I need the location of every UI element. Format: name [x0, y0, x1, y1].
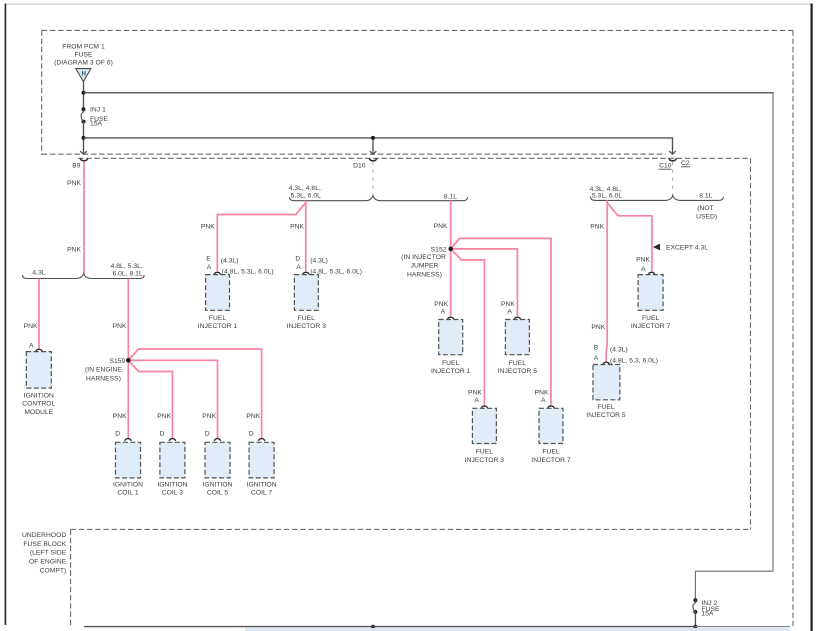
- svg-text:PNK: PNK: [501, 301, 515, 308]
- svg-text:(4.8L, 5.3, 6.0L): (4.8L, 5.3, 6.0L): [610, 358, 658, 365]
- svg-text:FUEL: FUEL: [509, 360, 527, 367]
- svg-text:S152: S152: [431, 247, 447, 254]
- svg-text:JUMPER: JUMPER: [411, 263, 439, 270]
- svg-text:D: D: [115, 430, 120, 437]
- svg-text:PNK: PNK: [113, 323, 127, 330]
- svg-text:A: A: [541, 397, 546, 404]
- svg-text:FROM PCM 1: FROM PCM 1: [62, 43, 105, 50]
- svg-text:4.3L: 4.3L: [32, 270, 45, 277]
- svg-text:INJECTOR 7: INJECTOR 7: [531, 457, 571, 464]
- svg-text:PNK: PNK: [113, 413, 127, 420]
- svg-text:D: D: [160, 430, 165, 437]
- svg-text:B9: B9: [72, 163, 81, 170]
- svg-text:PNK: PNK: [591, 324, 605, 331]
- svg-text:COIL 1: COIL 1: [117, 490, 138, 497]
- svg-text:FUEL: FUEL: [209, 315, 227, 322]
- svg-text:A: A: [641, 266, 646, 273]
- svg-text:15A: 15A: [702, 611, 715, 618]
- svg-text:FUEL: FUEL: [476, 449, 494, 456]
- svg-text:D: D: [295, 256, 300, 263]
- svg-text:UNDERHOOD: UNDERHOOD: [22, 532, 66, 539]
- svg-text:PNK: PNK: [246, 413, 260, 420]
- svg-text:PNK: PNK: [67, 246, 81, 253]
- svg-text:EXCEPT 4.3L: EXCEPT 4.3L: [666, 245, 708, 252]
- svg-text:INJECTOR 1: INJECTOR 1: [198, 323, 238, 330]
- svg-text:E: E: [206, 256, 211, 263]
- svg-text:A: A: [507, 309, 512, 316]
- svg-text:IGNITION: IGNITION: [247, 481, 277, 488]
- svg-text:5.3L, 6.0L: 5.3L, 6.0L: [592, 192, 622, 199]
- svg-text:MODULE: MODULE: [24, 409, 53, 416]
- svg-text:(IN INJECTOR: (IN INJECTOR: [401, 254, 446, 261]
- svg-text:HARNESS): HARNESS): [407, 271, 442, 278]
- svg-text:FUEL: FUEL: [298, 315, 316, 322]
- svg-text:(NOT: (NOT: [697, 205, 714, 212]
- svg-text:15A: 15A: [90, 120, 103, 127]
- svg-text:H: H: [82, 70, 87, 77]
- svg-text:D: D: [249, 430, 254, 437]
- svg-text:USED): USED): [696, 214, 717, 221]
- svg-text:FUEL: FUEL: [642, 315, 660, 322]
- svg-text:4.8L, 5.3L,: 4.8L, 5.3L,: [111, 263, 143, 270]
- svg-text:FUEL: FUEL: [542, 449, 560, 456]
- svg-text:C2: C2: [681, 160, 690, 167]
- svg-text:PNK: PNK: [468, 389, 482, 396]
- svg-text:FUSE BLOCK: FUSE BLOCK: [23, 541, 66, 548]
- svg-text:PNK: PNK: [434, 301, 448, 308]
- svg-text:5.3L, 6.0L: 5.3L, 6.0L: [291, 193, 321, 200]
- svg-text:IGNITION: IGNITION: [157, 481, 187, 488]
- svg-text:INJECTOR 3: INJECTOR 3: [465, 457, 505, 464]
- svg-text:PNK: PNK: [636, 256, 650, 263]
- svg-text:INJECTOR 7: INJECTOR 7: [631, 323, 671, 330]
- svg-text:(DIAGRAM 3 OF 6): (DIAGRAM 3 OF 6): [54, 60, 113, 67]
- svg-text:INJECTOR 1: INJECTOR 1: [431, 368, 471, 375]
- svg-text:IGNITION: IGNITION: [113, 481, 143, 488]
- svg-text:PNK: PNK: [201, 224, 215, 231]
- svg-text:C10: C10: [659, 162, 672, 169]
- svg-text:(4.3L): (4.3L): [610, 346, 628, 353]
- svg-text:PNK: PNK: [434, 223, 448, 230]
- svg-text:IGNITION: IGNITION: [202, 481, 232, 488]
- svg-text:INJECTOR 5: INJECTOR 5: [586, 412, 626, 419]
- svg-text:PNK: PNK: [24, 323, 38, 330]
- svg-text:PNK: PNK: [535, 389, 549, 396]
- svg-text:PNK: PNK: [290, 224, 304, 231]
- svg-text:A: A: [29, 342, 34, 349]
- svg-text:FUEL: FUEL: [442, 360, 460, 367]
- svg-text:A: A: [207, 264, 212, 271]
- svg-text:8.1L: 8.1L: [699, 192, 712, 199]
- svg-text:COIL 5: COIL 5: [207, 490, 228, 497]
- svg-text:FUSE: FUSE: [74, 51, 93, 58]
- svg-text:COMPT): COMPT): [40, 568, 67, 575]
- svg-text:B: B: [594, 345, 599, 352]
- svg-text:COIL 3: COIL 3: [162, 490, 183, 497]
- svg-text:(LEFT SIDE: (LEFT SIDE: [30, 550, 67, 557]
- svg-text:D10: D10: [353, 162, 366, 169]
- svg-text:COIL 7: COIL 7: [251, 490, 272, 497]
- svg-text:6.0L, 8.1L: 6.0L, 8.1L: [112, 270, 142, 277]
- svg-text:PNK: PNK: [202, 413, 216, 420]
- svg-text:HARNESS): HARNESS): [86, 375, 121, 382]
- svg-text:S159: S159: [109, 358, 125, 365]
- svg-text:(IN ENGINE: (IN ENGINE: [85, 367, 122, 374]
- svg-text:(4.3L): (4.3L): [221, 257, 239, 264]
- svg-text:A: A: [441, 309, 446, 316]
- svg-text:PNK: PNK: [67, 180, 81, 187]
- svg-text:A: A: [296, 264, 301, 271]
- svg-text:FUEL: FUEL: [597, 404, 615, 411]
- svg-text:A: A: [594, 355, 599, 362]
- svg-text:IGNITION: IGNITION: [24, 392, 54, 399]
- svg-text:PNK: PNK: [590, 224, 604, 231]
- svg-text:INJ 1: INJ 1: [90, 106, 106, 113]
- svg-text:OF ENGINE: OF ENGINE: [29, 559, 67, 566]
- svg-text:8.1L: 8.1L: [444, 193, 457, 200]
- svg-text:INJECTOR 3: INJECTOR 3: [287, 323, 327, 330]
- svg-text:CONTROL: CONTROL: [22, 401, 55, 408]
- svg-text:INJECTOR 5: INJECTOR 5: [498, 368, 538, 375]
- svg-text:(4.3L): (4.3L): [310, 257, 328, 264]
- svg-text:D: D: [205, 430, 210, 437]
- svg-text:A: A: [474, 397, 479, 404]
- svg-text:PNK: PNK: [157, 413, 171, 420]
- svg-text:4.3L, 4.8L,: 4.3L, 4.8L,: [289, 185, 321, 192]
